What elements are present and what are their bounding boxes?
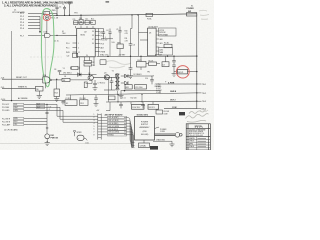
svg-text:SHIELD: SHIELD	[108, 135, 115, 137]
svg-text:P1-5: P1-5	[20, 25, 24, 27]
capacitor C2	[63, 6, 66, 16]
faint erased line	[30, 56, 62, 58]
right vertical bus	[196, 14, 198, 109]
svg-text:MOV1: MOV1	[178, 72, 183, 74]
svg-text:P1.0: P1.0	[66, 43, 70, 45]
box near IC bottom right	[100, 60, 106, 65]
A/D header J3	[98, 114, 101, 140]
svg-text:C16 .01: C16 .01	[120, 98, 126, 100]
svg-text:C15 2200: C15 2200	[135, 87, 142, 89]
svg-text:R4: R4	[63, 80, 65, 82]
svg-text:(P/N: (P/N	[143, 131, 147, 133]
svg-text:R11: R11	[125, 38, 128, 40]
title block rows	[186, 139, 210, 147]
svg-text:100-240): 100-240)	[141, 134, 149, 136]
svg-text:K1: K1	[66, 103, 68, 105]
small box bottom mid-right	[156, 110, 163, 114]
IC U2 right pin labels	[101, 31, 106, 53]
IC U2 top pin stubs	[74, 15, 94, 28]
arrow down from J1 bundle	[39, 31, 41, 33]
svg-text:6: 6	[94, 129, 95, 131]
junction dots on mid bus	[107, 56, 174, 58]
wires below IC	[80, 60, 90, 74]
IC U2 left pin stubs	[73, 43, 77, 52]
svg-text:36: 36	[92, 43, 94, 45]
svg-text:C1: C1	[59, 6, 61, 8]
gate U1A	[45, 34, 51, 38]
pencil squiggle top right	[199, 10, 209, 19]
svg-text:R6: R6	[36, 89, 38, 91]
svg-text:P2-2 NEU: P2-2 NEU	[2, 107, 10, 109]
svg-text:P1-4: P1-4	[20, 22, 24, 24]
wire to transformer bottom	[104, 89, 115, 91]
svg-text:CH3 LO (ORG): CH3 LO (ORG)	[108, 132, 119, 134]
resistor R2	[84, 61, 92, 63]
connector J2 row group B wires	[24, 119, 47, 125]
J2 row group A second label boxes	[37, 103, 45, 109]
svg-text:4: 4	[94, 123, 95, 125]
wires to J3	[57, 116, 98, 122]
svg-text:C20: C20	[73, 19, 76, 21]
svg-text:SPKR: SPKR	[77, 132, 83, 134]
svg-text:A/D INPUT BOARD: A/D INPUT BOARD	[105, 113, 123, 116]
ribbon cable bundle	[124, 117, 135, 148]
center tap ground	[120, 91, 122, 96]
IC U2 interior pin numbers	[78, 31, 94, 57]
svg-text:INT0: INT0	[66, 52, 70, 54]
svg-text:RV1: RV1	[80, 103, 83, 105]
IC U3 right label box lower	[159, 48, 173, 56]
resistor pack RP1	[117, 44, 123, 49]
svg-text:U1: U1	[62, 31, 64, 33]
svg-text:C17: C17	[49, 107, 52, 109]
wire row A with label	[2, 78, 43, 80]
J3 left pin labels	[94, 114, 95, 136]
svg-text:R12 220: R12 220	[131, 98, 137, 100]
svg-text:OUT 2: OUT 2	[170, 100, 176, 102]
svg-text:6264: 6264	[160, 49, 164, 51]
bottom mid cluster caps	[94, 95, 99, 106]
wire to transformer top	[93, 76, 115, 78]
svg-text:C6: C6	[133, 45, 135, 47]
label cluster	[105, 37, 116, 44]
svg-text:C5: C5	[116, 29, 118, 31]
ground below C7	[93, 88, 98, 91]
IC U3 latch	[139, 31, 148, 33]
svg-text:12: 12	[78, 52, 80, 54]
power cord double line	[155, 134, 176, 136]
svg-text:P0.2: P0.2	[101, 39, 105, 41]
svg-text:P2-4 SW H: P2-4 SW H	[2, 118, 11, 120]
lamp DS1	[45, 134, 50, 139]
J2 row group B label boxes	[14, 117, 24, 125]
capacitor C3	[102, 29, 105, 39]
+5V power rail	[50, 14, 197, 16]
svg-text:C2 .05: C2 .05	[54, 41, 59, 43]
diode D3	[125, 81, 129, 85]
ground below R14	[54, 99, 59, 102]
svg-text:P1-7: P1-7	[20, 35, 24, 37]
capacitor C14	[150, 76, 154, 84]
dark connector label J5	[179, 112, 185, 115]
svg-text:P1.1: P1.1	[66, 47, 70, 49]
svg-text:1: 1	[94, 114, 95, 116]
svg-text:P2-5 SW N: P2-5 SW N	[2, 121, 11, 123]
IC U3 mid labels	[160, 38, 163, 45]
label column mid	[125, 31, 129, 43]
title block header mark	[195, 126, 203, 128]
inter-bus stubs	[118, 94, 142, 102]
svg-text:TP4: TP4	[74, 13, 77, 15]
svg-text:Q2: Q2	[88, 73, 90, 75]
svg-text:A PWR: A PWR	[168, 81, 175, 84]
capacitor C5	[118, 27, 121, 45]
wire row B with label	[2, 88, 36, 90]
svg-text:120V RLY: 120V RLY	[132, 107, 141, 109]
svg-text:AC SENSE: AC SENSE	[18, 97, 28, 100]
faint pencil smudge mid	[106, 61, 131, 68]
svg-text:ASSEMBLY: ASSEMBLY	[139, 126, 150, 129]
svg-text:POWER: POWER	[187, 8, 195, 10]
resistor R8	[84, 82, 87, 88]
capacitor C8	[58, 71, 62, 75]
vertical from rail x132	[131, 15, 133, 29]
svg-text:R13 10: R13 10	[100, 83, 105, 85]
svg-text:CR3: CR3	[79, 18, 82, 20]
svg-text:SUPPLY: SUPPLY	[141, 124, 149, 126]
ground top	[67, 2, 71, 15]
resistor R14	[56, 79, 58, 89]
svg-text:PSEN: PSEN	[101, 51, 106, 53]
svg-text:YEL: YEL	[14, 124, 17, 126]
capacitor C13	[141, 104, 145, 108]
wire row mid	[60, 74, 97, 76]
svg-text:CHECK: CHECK	[189, 141, 194, 143]
IC U2 bottom pin stubs	[80, 57, 95, 66]
resistor R4	[62, 78, 70, 81]
svg-text:P1-6: P1-6	[20, 28, 24, 30]
svg-text:Q3: Q3	[104, 72, 106, 74]
svg-text:R15: R15	[91, 18, 94, 20]
svg-text:CH1 HI (WHT): CH1 HI (WHT)	[108, 117, 119, 119]
A/D wire labels	[108, 117, 119, 136]
svg-text:TP1: TP1	[147, 71, 150, 73]
wire to gate U1A	[28, 34, 45, 36]
svg-text:S1: S1	[191, 5, 193, 7]
IC U2 right pin stubs	[95, 32, 100, 52]
title block column divider	[196, 137, 198, 150]
relay boxes on lower bus	[121, 102, 153, 105]
gate U1B (circled in green, bottom)	[43, 77, 50, 83]
svg-text:R1 1.5K: R1 1.5K	[51, 17, 59, 19]
pin list text block	[156, 84, 162, 94]
PSU right stubs	[155, 127, 160, 129]
wire row C with label	[2, 100, 65, 102]
svg-text:CORD: CORD	[160, 131, 166, 133]
pencil signature	[186, 110, 209, 122]
long wire row 1 (mid bus)	[97, 55, 197, 57]
capacitor C7	[93, 80, 97, 88]
resistor R3	[84, 64, 92, 66]
svg-text:K5 RLY: K5 RLY	[149, 107, 156, 109]
IC U3 right pin stubs	[156, 31, 159, 51]
diode D2	[125, 74, 129, 78]
diode CR3	[79, 20, 83, 25]
terminal row wire COM	[164, 108, 197, 110]
svg-text:GND B: GND B	[170, 91, 177, 93]
long wire row 2	[66, 93, 197, 95]
svg-text:J1-9: J1-9	[1, 87, 5, 89]
capacitor C17 on lamp feed	[45, 112, 48, 113]
dark connector label J4	[150, 146, 158, 150]
svg-text:.1: .1	[49, 109, 50, 111]
secondary wires	[121, 76, 160, 91]
ground symbol bottom right	[170, 144, 175, 147]
svg-text:BR1: BR1	[126, 87, 129, 89]
relay K5	[148, 104, 159, 109]
transistor Q1 package	[43, 11, 49, 14]
title block table	[186, 124, 210, 150]
capacitor C18	[61, 100, 64, 104]
capacitor C10 with ground	[128, 56, 133, 78]
relay K1	[65, 100, 77, 106]
varistor RV1	[80, 100, 89, 106]
svg-text:C21: C21	[85, 18, 88, 20]
svg-text:37: 37	[92, 39, 94, 41]
svg-text:POWER: POWER	[141, 122, 149, 124]
relay K4	[132, 104, 145, 109]
svg-text:5 N.C.: 5 N.C.	[156, 92, 161, 94]
svg-text:CHAS GND: CHAS GND	[156, 139, 166, 142]
svg-text:C14: C14	[145, 78, 148, 80]
svg-text:2: 2	[94, 117, 95, 119]
A/D wire label boxes	[108, 116, 127, 136]
svg-text:J1-8: J1-8	[1, 78, 5, 80]
plug symbol	[175, 133, 180, 138]
regulator VR2 (circled in red)	[174, 71, 178, 73]
svg-text:T1: T1	[112, 71, 114, 73]
thermistor RT1 inside red circle	[45, 15, 49, 34]
long wire row 3	[106, 100, 197, 103]
svg-text:7404: 7404	[62, 33, 66, 35]
svg-text:SPECIFIED DIMEN: SPECIFIED DIMEN	[189, 131, 204, 133]
node dot left bus	[11, 100, 12, 101]
svg-text:3: 3	[94, 120, 95, 122]
svg-text:CR2 1N914: CR2 1N914	[63, 73, 71, 75]
connector J1 pin wires	[28, 13, 43, 31]
ground below DS1	[45, 143, 50, 146]
green annotation loop	[41, 9, 54, 87]
J2 transfer verticals	[57, 104, 63, 122]
capacitor C9	[110, 77, 114, 90]
svg-text:COM: COM	[172, 107, 177, 109]
power supply box	[135, 117, 155, 141]
faint crease line	[0, 143, 130, 145]
svg-text:TB-1: TB-1	[202, 84, 206, 86]
svg-text:5: 5	[94, 126, 95, 128]
box U4	[165, 56, 167, 62]
svg-text:R14: R14	[55, 93, 58, 95]
capacitor C21	[85, 20, 89, 24]
capacitor C20	[74, 21, 78, 25]
svg-text:CH2 LO (GRN): CH2 LO (GRN)	[108, 126, 119, 128]
oscillator B1	[140, 56, 142, 61]
connector J1 pin labels	[20, 13, 24, 37]
svg-text:UNLESS OTHERWISE: UNLESS OTHERWISE	[189, 129, 205, 131]
wire left of transformer	[108, 77, 110, 102]
svg-text:CH1 LO (BLK): CH1 LO (BLK)	[108, 120, 119, 122]
svg-text:J2 CPU BOARD: J2 CPU BOARD	[4, 129, 18, 132]
junction dots right bus	[196, 55, 197, 102]
IC U2 8031	[77, 28, 96, 57]
capacitor C12	[119, 104, 123, 108]
svg-text:R10: R10	[125, 31, 128, 33]
svg-text:U4: U4	[163, 64, 165, 66]
svg-text:Y1: Y1	[63, 68, 65, 70]
svg-text:J1-10: J1-10	[1, 99, 6, 101]
ground below C11	[172, 74, 177, 77]
svg-text:20: 20	[86, 55, 88, 57]
svg-text:R2: R2	[92, 62, 94, 64]
svg-text:P1-1: P1-1	[20, 13, 24, 15]
diode D1	[78, 73, 82, 77]
connector J2 row group A wires	[24, 104, 63, 110]
tick marks on lamp feed	[46, 128, 48, 129]
red circle annotation around RT1	[43, 14, 50, 20]
svg-text:1/2W: 1/2W	[164, 113, 168, 115]
pencil mark near bus bottom	[200, 110, 208, 112]
capacitor C22	[73, 53, 78, 57]
wire vertical left bus	[11, 31, 13, 101]
tiny labels above	[73, 18, 94, 21]
svg-text:TB-2: TB-2	[202, 93, 206, 95]
svg-text:WHT: WHT	[14, 107, 18, 109]
faint wire inside green loop	[44, 37, 46, 76]
svg-text:D2 1N4001: D2 1N4001	[134, 74, 142, 76]
svg-text:C4: C4	[106, 30, 108, 32]
svg-text:RP1: RP1	[117, 42, 120, 44]
svg-text:P0.3: P0.3	[101, 43, 105, 45]
stray mark top center	[106, 1, 110, 2]
svg-text:CH3 HI (BLU): CH3 HI (BLU)	[108, 129, 118, 131]
small box under transformer	[109, 96, 116, 100]
svg-text:C8: C8	[54, 69, 56, 71]
wire bend to bus	[159, 91, 161, 94]
svg-text:SPARE IN: SPARE IN	[18, 85, 27, 88]
svg-text:7: 7	[94, 132, 95, 134]
resistor R15	[91, 20, 95, 24]
filter cap box C15	[135, 85, 147, 89]
svg-text:.XX=.01 .XXX=.005: .XX=.01 .XXX=.005	[189, 135, 203, 137]
svg-text:C3: C3	[100, 33, 102, 35]
fuse F2 on rail	[146, 13, 153, 16]
svg-text:8: 8	[94, 135, 95, 137]
svg-text:U3 74LS373: U3 74LS373	[148, 26, 157, 28]
tie wire below caps	[101, 38, 113, 40]
wire vertical x98	[97, 29, 99, 57]
svg-text:P2-1 HOT: P2-1 HOT	[2, 104, 9, 106]
ground below R6	[37, 96, 42, 99]
GND wire below	[153, 140, 168, 142]
red circle annotation around VR2	[176, 66, 189, 78]
svg-text:LS1: LS1	[86, 142, 89, 144]
svg-text:U3: U3	[149, 33, 151, 35]
capacitor C4	[108, 29, 111, 39]
svg-text:38: 38	[92, 35, 94, 37]
IC U3 right label box upper	[159, 28, 177, 36]
svg-text:115VAC 60HZ: 115VAC 60HZ	[137, 114, 149, 117]
svg-text:PWR ON: PWR ON	[51, 137, 59, 139]
svg-text:P2-3 GND: P2-3 GND	[2, 110, 10, 112]
svg-text:39: 39	[92, 31, 94, 33]
capacitor C11 on right vertical	[172, 56, 176, 73]
svg-text:TB-3: TB-3	[202, 101, 206, 103]
svg-text:2. ALL CAPACITORS ARE IN MICRO: 2. ALL CAPACITORS ARE IN MICROFARADS	[4, 4, 56, 8]
resistor R6	[36, 86, 44, 91]
A/D wires to labels	[101, 117, 107, 134]
capacitor C6	[129, 29, 133, 57]
terminal row wire A PWR	[158, 83, 197, 85]
lower-left branch of bus 3	[106, 102, 110, 111]
bridge BR1 box	[125, 85, 132, 89]
junction dots on rail	[56, 14, 138, 16]
crystal Y1	[72, 66, 78, 69]
lamp feed vertical	[46, 104, 48, 134]
svg-text:RESET OUT: RESET OUT	[16, 77, 28, 79]
svg-text:R3: R3	[92, 65, 94, 67]
transistor Q2	[88, 75, 93, 80]
svg-text:+5V: +5V	[54, 3, 58, 5]
transistor Q3	[104, 75, 109, 80]
svg-text:120VAC: 120VAC	[140, 145, 147, 148]
J2 row group A label boxes	[14, 103, 24, 111]
svg-text:CH2 HI (RED): CH2 HI (RED)	[108, 123, 119, 125]
PSU bottom stub	[143, 140, 145, 143]
svg-text:P1-3: P1-3	[20, 19, 24, 21]
svg-text:EPROM: EPROM	[160, 32, 167, 34]
svg-text:P1-2: P1-2	[20, 16, 24, 18]
svg-text:C22: C22	[67, 56, 70, 58]
title block text	[189, 129, 205, 136]
svg-text:27128: 27128	[160, 30, 165, 32]
